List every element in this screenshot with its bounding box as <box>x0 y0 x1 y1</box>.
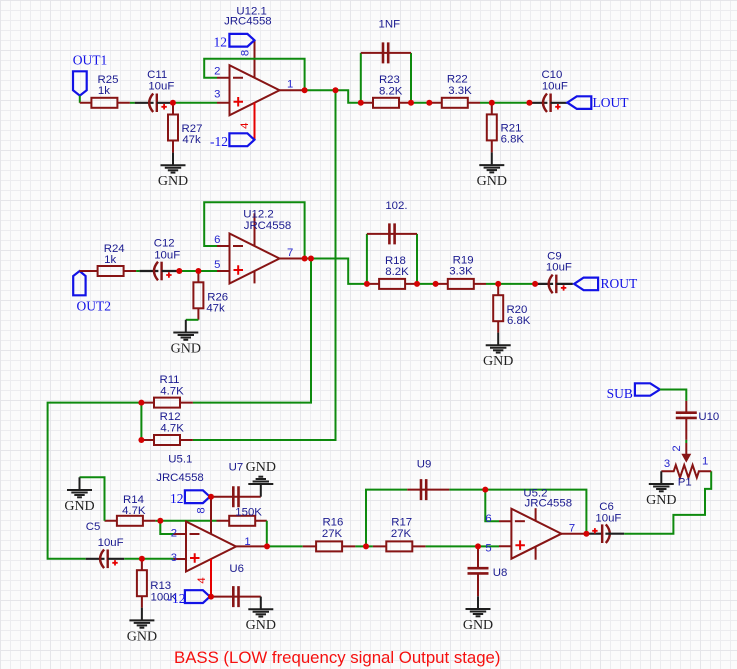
svg-text:47k: 47k <box>206 303 225 315</box>
svg-text:C10: C10 <box>541 69 562 81</box>
ground R13 <box>127 608 157 645</box>
wire out2a <box>305 258 311 260</box>
resistor R13 <box>137 559 178 608</box>
port ROUT <box>574 276 638 291</box>
junction <box>302 87 308 93</box>
junction <box>489 100 495 106</box>
svg-text:12: 12 <box>214 35 228 50</box>
capacitor C11 <box>135 69 175 112</box>
svg-text:1: 1 <box>287 79 293 91</box>
capacitor U7 <box>211 461 261 507</box>
svg-text:10uF: 10uF <box>542 80 568 92</box>
wire R23-R22 <box>411 102 429 104</box>
resistor R16 <box>303 516 356 551</box>
svg-text:10uF: 10uF <box>98 537 124 549</box>
wire C5 to pin3 <box>124 558 173 560</box>
wire 1NF right <box>410 53 412 103</box>
ground U6 <box>246 597 276 634</box>
svg-text:150K: 150K <box>235 506 262 518</box>
svg-text:OUT2: OUT2 <box>77 299 112 314</box>
junction <box>195 268 201 274</box>
junction <box>433 281 439 287</box>
svg-text:10uF: 10uF <box>154 250 180 262</box>
svg-text:C6: C6 <box>599 501 614 513</box>
svg-text:8: 8 <box>239 50 251 56</box>
port OUT1 <box>73 52 108 95</box>
svg-text:5: 5 <box>485 543 491 555</box>
wire U9 to out <box>449 490 586 534</box>
svg-text:JRC4558: JRC4558 <box>156 472 204 484</box>
wire C6 to P1 <box>624 471 711 533</box>
svg-text:3.3K: 3.3K <box>449 266 473 278</box>
svg-text:C11: C11 <box>147 69 167 81</box>
svg-text:U5.1: U5.1 <box>168 454 192 466</box>
power -12 U5.1 <box>168 590 210 606</box>
power +12 U12.1 <box>214 34 255 50</box>
capacitor U6 <box>211 586 261 607</box>
wire R16-R17 <box>355 545 373 547</box>
svg-text:102.: 102. <box>385 200 407 212</box>
wire to U9 <box>366 490 407 547</box>
resistor R20 <box>493 284 531 333</box>
svg-text:27K: 27K <box>322 528 343 540</box>
resistor R17 <box>373 516 426 551</box>
svg-text:U8: U8 <box>493 567 508 579</box>
svg-text:-12: -12 <box>168 591 186 606</box>
svg-text:7: 7 <box>287 247 293 259</box>
wire R25 to C11 <box>130 102 135 104</box>
wire R24 to C12 <box>136 270 140 272</box>
wire out2b <box>311 259 367 284</box>
svg-text:GND: GND <box>463 618 493 633</box>
wire R11-R12 link <box>140 403 142 440</box>
svg-text:U9: U9 <box>417 459 432 471</box>
ground R20 <box>483 333 513 370</box>
svg-text:C5: C5 <box>86 521 101 533</box>
op-amp U12.1 <box>214 6 304 140</box>
wire out to R16 <box>267 545 303 547</box>
capacitor U10 <box>676 401 719 440</box>
wire to pin5 <box>198 270 217 272</box>
wire R19 to C9 <box>486 283 535 285</box>
svg-text:27K: 27K <box>391 528 412 540</box>
svg-text:BASS (LOW frequency signal Out: BASS (LOW frequency signal Output stage) <box>174 648 500 667</box>
wire node to pin2 <box>160 521 173 534</box>
svg-text:LOUT: LOUT <box>593 95 630 110</box>
capacitor 102 <box>367 200 417 245</box>
junction <box>208 494 214 500</box>
svg-text:4.7K: 4.7K <box>160 385 184 397</box>
svg-text:3: 3 <box>664 458 670 470</box>
resistor R12 <box>141 411 193 445</box>
wire U12.1 out down to R12 <box>193 90 336 440</box>
junction <box>308 256 314 262</box>
wire 150K to out <box>266 521 268 547</box>
capacitor C10 <box>529 69 568 112</box>
junction <box>426 100 432 106</box>
svg-text:R26: R26 <box>207 291 228 303</box>
svg-text:6.8K: 6.8K <box>501 134 525 146</box>
resistor R24 <box>80 243 137 276</box>
wire C11 to pin3 <box>173 102 217 104</box>
svg-text:U7: U7 <box>229 461 244 473</box>
junction <box>364 281 370 287</box>
svg-text:10uF: 10uF <box>595 512 621 524</box>
port OUT2 <box>73 271 111 314</box>
wire to pin6 <box>485 490 499 522</box>
junction <box>170 100 176 106</box>
ground R26 <box>171 320 201 357</box>
svg-text:SUB: SUB <box>607 386 633 401</box>
svg-text:R27: R27 <box>182 123 203 135</box>
ground P1 <box>646 471 676 508</box>
wire SUB to U10 <box>660 390 686 401</box>
ground R21 <box>477 152 507 189</box>
svg-text:GND: GND <box>646 493 676 508</box>
svg-text:GND: GND <box>64 499 94 514</box>
svg-text:GND: GND <box>158 174 188 189</box>
svg-text:8: 8 <box>196 507 208 513</box>
junction <box>139 556 145 562</box>
ground R27 <box>158 153 188 190</box>
svg-text:6: 6 <box>214 234 220 246</box>
svg-text:R17: R17 <box>391 516 412 528</box>
power +12 U5.1 <box>170 490 210 506</box>
svg-text:R23: R23 <box>379 74 400 86</box>
wire 102 right <box>416 234 418 284</box>
wire R14 to gnd <box>80 477 105 521</box>
wire out1a <box>305 89 336 91</box>
svg-text:10uF: 10uF <box>148 80 174 92</box>
ground C5-R14 <box>64 477 94 514</box>
svg-text:R24: R24 <box>104 243 125 255</box>
capacitor C9 <box>534 250 573 293</box>
potentiometer P1 <box>661 443 711 489</box>
power -12 U12.1 <box>210 133 254 149</box>
svg-text:GND: GND <box>483 354 513 369</box>
svg-text:U10: U10 <box>698 411 719 423</box>
svg-text:6.8K: 6.8K <box>507 315 531 327</box>
resistor R21 <box>487 103 525 153</box>
svg-text:GND: GND <box>246 618 276 633</box>
svg-text:4.7K: 4.7K <box>160 423 184 435</box>
wire R11 to C5 <box>48 403 142 559</box>
junction <box>363 543 369 549</box>
svg-text:1k: 1k <box>98 85 110 97</box>
junction <box>138 400 144 406</box>
wire R26 to gnd <box>186 319 199 321</box>
wire R17 to pin5 <box>426 545 499 547</box>
svg-text:1: 1 <box>702 456 708 468</box>
junction <box>157 518 163 524</box>
resistor R23 <box>361 74 411 108</box>
ground U7 <box>246 460 276 497</box>
svg-text:JRC4558: JRC4558 <box>224 15 272 27</box>
svg-text:P1: P1 <box>678 477 692 489</box>
junction <box>583 531 589 537</box>
svg-text:2: 2 <box>671 445 683 451</box>
svg-text:-12: -12 <box>210 134 228 149</box>
svg-text:12: 12 <box>170 491 184 506</box>
svg-text:R11: R11 <box>159 374 179 386</box>
resistor 150K <box>217 506 267 525</box>
svg-text:JRC4558: JRC4558 <box>244 220 292 232</box>
svg-text:R21: R21 <box>501 123 522 135</box>
op-amp U5.2 <box>485 487 586 559</box>
svg-text:2: 2 <box>214 66 220 78</box>
svg-text:10uF: 10uF <box>546 262 572 274</box>
junction <box>358 100 364 106</box>
port SUB <box>607 383 660 401</box>
svg-text:1: 1 <box>244 536 250 548</box>
svg-text:U12.2: U12.2 <box>243 209 273 221</box>
svg-text:8.2K: 8.2K <box>379 85 403 97</box>
svg-text:4: 4 <box>239 123 251 129</box>
svg-text:C9: C9 <box>547 250 562 262</box>
ground U8 <box>463 596 493 633</box>
junction <box>475 543 481 549</box>
junction <box>138 437 144 443</box>
svg-text:OUT1: OUT1 <box>73 52 108 67</box>
junction <box>408 100 414 106</box>
op-amp U5.1 <box>156 454 267 597</box>
svg-text:1k: 1k <box>104 254 116 266</box>
wire U12.2 feedback <box>204 202 304 258</box>
svg-text:6: 6 <box>485 513 491 525</box>
svg-text:JRC4558: JRC4558 <box>525 497 573 509</box>
svg-text:R16: R16 <box>322 516 343 528</box>
wire U12.1 feedback <box>204 59 304 90</box>
resistor R25 <box>80 74 130 108</box>
junction <box>526 100 532 106</box>
junction <box>495 281 501 287</box>
junction <box>302 256 308 262</box>
svg-text:5: 5 <box>214 259 220 271</box>
resistor R18 <box>367 255 417 289</box>
wire OUT1 to R25 <box>79 96 81 103</box>
svg-text:R19: R19 <box>453 255 474 267</box>
wire U12.2 out down to R11 <box>193 259 311 403</box>
capacitor C5 <box>86 521 125 568</box>
capacitor U8 <box>468 546 508 596</box>
junction <box>176 268 182 274</box>
junction <box>482 487 488 493</box>
op-amp U12.2 <box>214 209 304 284</box>
svg-text:4: 4 <box>196 577 208 583</box>
svg-text:4.7K: 4.7K <box>122 505 146 517</box>
svg-text:C12: C12 <box>154 237 175 249</box>
junction <box>264 543 270 549</box>
svg-text:U6: U6 <box>229 563 244 575</box>
junction <box>333 87 339 93</box>
svg-text:R12: R12 <box>160 411 181 423</box>
svg-text:3: 3 <box>171 552 177 564</box>
svg-text:7: 7 <box>569 522 575 534</box>
capacitor U9 <box>407 459 449 501</box>
junction <box>208 594 214 600</box>
capacitor 1NF <box>361 19 411 64</box>
resistor R22 <box>429 74 480 108</box>
svg-text:GND: GND <box>127 629 157 644</box>
wire 1NF left <box>360 53 362 103</box>
svg-text:47k: 47k <box>182 134 201 146</box>
wire out1b <box>336 90 361 103</box>
capacitor C12 <box>140 237 181 280</box>
svg-text:8.2K: 8.2K <box>385 266 409 278</box>
resistor R19 <box>436 255 486 289</box>
svg-text:GND: GND <box>246 460 276 475</box>
capacitor C6 <box>586 501 625 543</box>
wire R22 to C10 <box>480 102 529 104</box>
wire 102 left <box>366 234 368 284</box>
wire node to 150K <box>160 520 216 522</box>
svg-text:GND: GND <box>171 341 201 356</box>
svg-text:3.3K: 3.3K <box>448 85 472 97</box>
resistor R26 <box>193 271 228 320</box>
port LOUT <box>567 95 629 110</box>
junction <box>532 281 538 287</box>
wire C12a <box>179 270 198 272</box>
svg-text:2: 2 <box>171 527 177 539</box>
svg-text:ROUT: ROUT <box>601 276 639 291</box>
resistor R27 <box>168 103 202 153</box>
svg-text:R14: R14 <box>123 494 144 506</box>
wire U10 to wiper <box>685 440 687 443</box>
junction <box>414 281 420 287</box>
svg-text:3: 3 <box>214 88 220 100</box>
svg-text:GND: GND <box>477 174 507 189</box>
wire R14 to node <box>156 520 161 522</box>
svg-text:R22: R22 <box>447 74 468 86</box>
resistor R14 <box>105 494 156 526</box>
svg-text:1NF: 1NF <box>379 19 401 31</box>
resistor R11 <box>141 374 193 408</box>
wire R18-R19 <box>417 283 436 285</box>
